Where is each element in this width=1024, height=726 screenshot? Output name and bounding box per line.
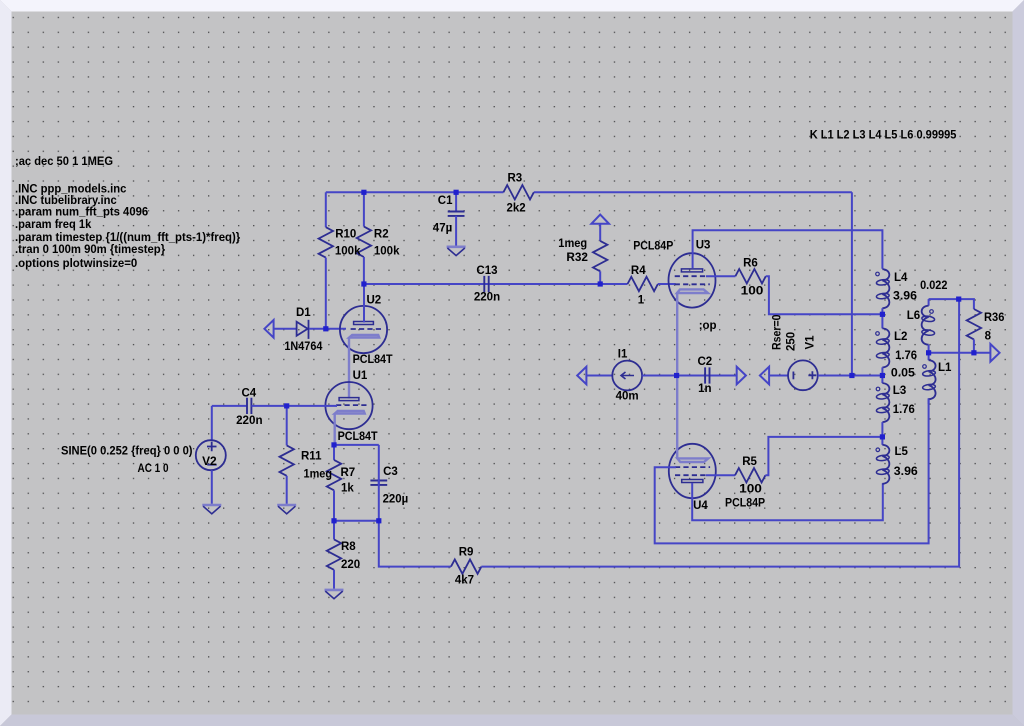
svg-text:V2: V2 bbox=[202, 456, 217, 468]
phase dot L4 bbox=[876, 272, 880, 276]
tube U1 bbox=[325, 382, 372, 429]
svg-text:250: 250 bbox=[786, 332, 798, 351]
svg-text:L3: L3 bbox=[893, 385, 906, 397]
wire U4 grid bbox=[655, 398, 929, 543]
wire U2 anode bbox=[363, 284, 365, 323]
svg-text:R36: R36 bbox=[984, 312, 1004, 324]
wire bbox=[309, 328, 346, 330]
svg-text:.options plotwinsize=0: .options plotwinsize=0 bbox=[15, 258, 137, 270]
svg-text:100k: 100k bbox=[374, 246, 400, 258]
phase dot L5 bbox=[876, 448, 880, 452]
wire bbox=[642, 375, 704, 377]
svg-text:L6: L6 bbox=[907, 310, 920, 322]
wire U1 grid bbox=[287, 405, 337, 407]
wire bbox=[334, 444, 379, 446]
svg-text:R10: R10 bbox=[335, 229, 356, 241]
junction bbox=[323, 326, 328, 331]
wire bbox=[326, 191, 504, 193]
svg-text:L2: L2 bbox=[894, 331, 907, 343]
resistor R3 bbox=[503, 185, 533, 199]
svg-text:U2: U2 bbox=[367, 295, 382, 307]
svg-text:8: 8 bbox=[985, 330, 992, 342]
net flag bbox=[737, 367, 746, 385]
junction bbox=[284, 403, 289, 408]
net flag bbox=[264, 320, 273, 338]
junction bbox=[880, 312, 885, 317]
wire bbox=[851, 192, 853, 375]
net flag bbox=[990, 344, 999, 362]
diode D1 bbox=[297, 320, 309, 339]
wire bbox=[973, 339, 975, 352]
svg-text:.param timestep {1/((num_fft_p: .param timestep {1/((num_fft_pts-1)*freq… bbox=[15, 232, 241, 244]
svg-text:R7: R7 bbox=[341, 467, 356, 479]
wire bbox=[481, 299, 959, 566]
svg-text:1: 1 bbox=[638, 295, 645, 307]
junction bbox=[376, 518, 381, 523]
junction bbox=[454, 190, 459, 195]
svg-text:1meg: 1meg bbox=[304, 468, 333, 480]
phase dot L2 bbox=[876, 332, 880, 336]
tube U2 bbox=[340, 306, 387, 353]
junction bbox=[880, 373, 885, 378]
wire bbox=[586, 375, 613, 377]
resistor R7 bbox=[327, 445, 341, 521]
svg-text:4k7: 4k7 bbox=[455, 575, 474, 587]
net flag bbox=[577, 367, 586, 385]
svg-text:1.76: 1.76 bbox=[893, 404, 915, 416]
current source I1 bbox=[612, 361, 642, 391]
svg-text:PCL84P: PCL84P bbox=[633, 241, 673, 253]
svg-text:V1: V1 bbox=[805, 335, 817, 350]
svg-text:100k: 100k bbox=[335, 245, 361, 257]
svg-text:L4: L4 bbox=[894, 272, 908, 284]
resistor R32 bbox=[593, 223, 607, 284]
resistor R6 bbox=[735, 269, 765, 283]
inductor L6 bbox=[922, 299, 935, 353]
wire bbox=[929, 352, 991, 354]
wire bbox=[534, 191, 852, 193]
wire U4 screen to R5 bbox=[706, 474, 735, 476]
phase dot L6 bbox=[930, 310, 934, 314]
svg-text:0.022: 0.022 bbox=[920, 280, 947, 292]
wire bbox=[658, 283, 676, 285]
wire U3 screen to R6 bbox=[706, 275, 735, 277]
resistor R9 bbox=[451, 559, 481, 573]
svg-text:220n: 220n bbox=[474, 292, 500, 304]
capacitor C4 bbox=[212, 398, 287, 414]
junction bbox=[956, 297, 961, 302]
wire U4 anode bbox=[692, 483, 883, 520]
resistor R2 bbox=[357, 192, 371, 284]
tube U3 bbox=[669, 253, 716, 307]
svg-text:R11: R11 bbox=[301, 451, 322, 463]
capacitor C1 bbox=[448, 192, 465, 245]
resistor R11 bbox=[280, 406, 294, 504]
svg-text:;ac dec 50 1 1MEG: ;ac dec 50 1 1MEG bbox=[15, 156, 113, 168]
tube U4 bbox=[669, 444, 716, 498]
svg-text:220n: 220n bbox=[236, 415, 263, 427]
wire bbox=[379, 521, 451, 567]
wire U3 anode bbox=[693, 230, 883, 268]
junction bbox=[598, 281, 603, 286]
wire bbox=[929, 299, 974, 309]
svg-text:R6: R6 bbox=[743, 258, 758, 270]
junction bbox=[880, 434, 885, 439]
svg-text:R9: R9 bbox=[459, 546, 474, 558]
voltage source V1 bbox=[788, 360, 818, 390]
svg-text:.tran 0 100m 90m {timestep}: .tran 0 100m 90m {timestep} bbox=[15, 244, 166, 256]
resistor R5 bbox=[735, 468, 765, 482]
junction bbox=[971, 350, 976, 355]
svg-text:2k2: 2k2 bbox=[507, 203, 526, 215]
svg-text:U1: U1 bbox=[353, 370, 368, 382]
svg-text:C4: C4 bbox=[242, 387, 257, 399]
svg-text:100: 100 bbox=[741, 286, 764, 298]
wire U1 cathode bbox=[334, 414, 336, 445]
wire bbox=[710, 375, 737, 377]
resistor R36 bbox=[967, 309, 981, 339]
inductor L3 bbox=[876, 376, 889, 437]
svg-text:K L1 L2 L3 L4 L5 L6 0.99995: K L1 L2 L3 L4 L5 L6 0.99995 bbox=[810, 130, 957, 142]
svg-text:L5: L5 bbox=[895, 446, 909, 458]
svg-text:1.76: 1.76 bbox=[895, 350, 917, 362]
inductor L1 bbox=[922, 353, 935, 404]
svg-text:47µ: 47µ bbox=[433, 222, 452, 234]
junction bbox=[849, 373, 854, 378]
svg-text:100: 100 bbox=[739, 483, 762, 495]
inductor L4 bbox=[876, 269, 889, 314]
svg-text:C13: C13 bbox=[476, 265, 497, 277]
svg-text:1meg: 1meg bbox=[558, 238, 587, 250]
svg-text:R3: R3 bbox=[508, 173, 523, 185]
svg-text:220µ: 220µ bbox=[383, 494, 409, 506]
wire bbox=[334, 520, 379, 522]
junction bbox=[674, 373, 679, 378]
svg-text:.INC tubelibrary.inc: .INC tubelibrary.inc bbox=[15, 195, 117, 207]
svg-text:.INC ppp_models.inc: .INC ppp_models.inc bbox=[15, 184, 127, 196]
svg-text:3.96: 3.96 bbox=[893, 291, 917, 303]
inductor L2 bbox=[876, 314, 889, 375]
wire U2 cathode to U1 anode bbox=[348, 338, 350, 399]
svg-text:0.05: 0.05 bbox=[891, 368, 916, 380]
svg-text:;op: ;op bbox=[699, 320, 717, 332]
ground bbox=[447, 247, 466, 256]
wire bbox=[490, 283, 628, 285]
wire bbox=[273, 328, 296, 330]
ground bbox=[202, 505, 221, 514]
svg-text:AC 1 0: AC 1 0 bbox=[138, 463, 169, 475]
svg-text:SINE(0 0.252 {freq} 0 0 0): SINE(0 0.252 {freq} 0 0 0) bbox=[61, 446, 193, 458]
svg-text:.param freq 1k: .param freq 1k bbox=[15, 219, 92, 231]
svg-text:D1: D1 bbox=[296, 307, 311, 319]
wire U4 cathode bbox=[676, 376, 678, 460]
wire bbox=[766, 276, 883, 314]
svg-text:C3: C3 bbox=[383, 466, 398, 478]
capacitor C2 bbox=[703, 367, 712, 383]
junction bbox=[361, 281, 366, 286]
svg-text:C1: C1 bbox=[438, 195, 453, 207]
svg-text:Rser=0: Rser=0 bbox=[772, 315, 784, 351]
svg-text:PCL84P: PCL84P bbox=[725, 498, 765, 510]
capacitor C3 bbox=[370, 445, 387, 521]
svg-text:40m: 40m bbox=[616, 391, 639, 403]
inductor L5 bbox=[876, 437, 889, 484]
resistor R8 bbox=[327, 521, 341, 589]
svg-text:1k: 1k bbox=[341, 482, 354, 494]
svg-text:I1: I1 bbox=[618, 349, 628, 361]
svg-text:R32: R32 bbox=[566, 252, 588, 264]
resistor R10 bbox=[319, 192, 333, 328]
ground bbox=[277, 505, 296, 514]
wire bbox=[765, 437, 882, 475]
svg-text:R2: R2 bbox=[374, 229, 389, 241]
wire bbox=[769, 375, 788, 377]
svg-text:PCL84T: PCL84T bbox=[338, 431, 378, 443]
svg-text:R5: R5 bbox=[742, 456, 757, 468]
net flag bbox=[591, 215, 609, 224]
svg-text:1n: 1n bbox=[698, 383, 711, 395]
capacitor C13 bbox=[482, 276, 491, 292]
svg-text:1N4764: 1N4764 bbox=[284, 341, 323, 353]
svg-text:R4: R4 bbox=[631, 265, 646, 277]
svg-text:3.96: 3.96 bbox=[894, 466, 918, 478]
phase dot L3 bbox=[876, 387, 880, 391]
junction bbox=[331, 518, 336, 523]
voltage source V2 bbox=[196, 406, 226, 504]
wire bbox=[364, 283, 484, 285]
svg-text:U4: U4 bbox=[693, 500, 708, 512]
junction bbox=[926, 350, 931, 355]
svg-text:C2: C2 bbox=[698, 356, 713, 368]
svg-text:220: 220 bbox=[341, 559, 360, 571]
junction bbox=[331, 442, 336, 447]
svg-text:R8: R8 bbox=[341, 541, 356, 553]
junction bbox=[361, 190, 366, 195]
wire bbox=[818, 375, 883, 377]
resistor R4 bbox=[628, 277, 658, 291]
ground bbox=[325, 590, 344, 599]
wire U3 cathode bbox=[676, 292, 678, 376]
svg-text:U3: U3 bbox=[696, 240, 711, 252]
phase dot L1 bbox=[923, 365, 927, 369]
net flag bbox=[760, 367, 769, 385]
svg-text:.param num_fft_pts 4096: .param num_fft_pts 4096 bbox=[15, 207, 148, 219]
svg-text:L1: L1 bbox=[938, 362, 952, 374]
svg-text:PCL84T: PCL84T bbox=[353, 354, 393, 366]
